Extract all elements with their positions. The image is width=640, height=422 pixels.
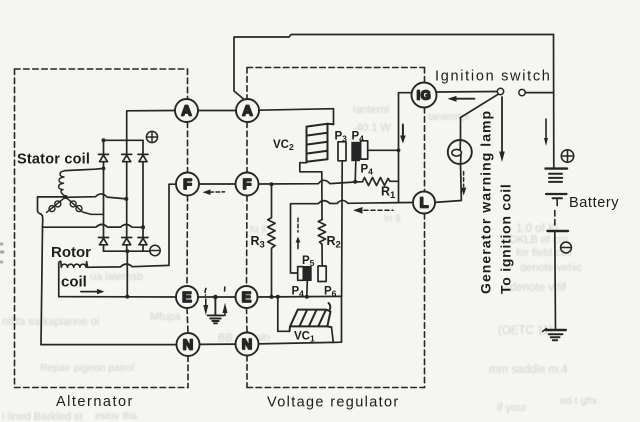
terminal N alternator (177, 333, 200, 356)
wire: F1 to F2 (199, 183, 236, 185)
flow arrow down on IG drop (402, 125, 404, 137)
node: P5 drop junction (305, 295, 309, 299)
wire: ignition switch to battery line (525, 92, 553, 94)
wire: diode column 1 (103, 140, 105, 251)
wire: E row left, rotor coil outline, F field loop (59, 184, 176, 297)
svg-text:if your: if your (497, 402, 527, 414)
diode D4 negative (99, 238, 109, 245)
terminal A regulator (236, 99, 259, 122)
diode D6 negative (138, 238, 148, 245)
svg-text:tanterrtpl: tanterrtpl (428, 111, 469, 123)
wire: N2 right to VC1 corner (259, 296, 342, 344)
resistor R1 (363, 178, 399, 186)
node: R3 top junction (270, 182, 274, 186)
svg-text:Rotor: Rotor (51, 244, 91, 261)
wire: E1 to E2 (199, 296, 236, 298)
wire: phase 3 lower with hops to column 3 (43, 224, 144, 227)
battery cell plates (546, 169, 569, 231)
svg-text:IG: IG (417, 88, 432, 103)
wire: P4 moving contact drop to R1 row (354, 161, 357, 182)
diode D5 negative (122, 238, 132, 245)
wire: IG left and vertical drop to L row (399, 93, 412, 203)
rectifier negative symbol (150, 245, 160, 255)
node: VC1 left junction (276, 295, 280, 299)
svg-text:in il: in il (384, 213, 401, 225)
wire: negative rail down to E row (126, 251, 128, 296)
node: R3 bottom junction (270, 295, 274, 299)
diode D1 positive (99, 154, 109, 161)
svg-text:E: E (242, 290, 252, 306)
battery negative symbol (561, 242, 572, 253)
ground symbol between E terminals (208, 297, 224, 323)
svg-text:-denote vrlif: -denote vrlif (506, 282, 567, 294)
wire: E row right segment (258, 295, 342, 298)
wire: IG terminal to ignition switch (437, 91, 498, 94)
svg-text:Generator warning lamp: Generator warning lamp (478, 110, 494, 294)
node: negative rail junction (125, 249, 129, 253)
wire: N1 to N2 (200, 343, 236, 345)
terminal E regulator (236, 286, 258, 308)
svg-text:Repair pigeon patrol: Repair pigeon patrol (40, 362, 135, 374)
svg-text:E: E (182, 290, 192, 306)
flow arrow down at E ground left (204, 289, 207, 296)
wire: phase 2 with hop over column 1 (66, 194, 126, 199)
wire: lamp stem (460, 118, 462, 140)
flow arrow down from lamp (463, 172, 465, 187)
wire: VC1 right terminal drop (332, 327, 334, 342)
svg-text:mm saddle m.4: mm saddle m.4 (489, 364, 568, 376)
wire: R2 bottom to P6 contact (321, 244, 323, 266)
contact P4 moving plate filled (351, 142, 360, 161)
svg-text:Battery: Battery (569, 195, 619, 211)
svg-text:F: F (243, 177, 252, 193)
node: junction on IG drop at contact wire (397, 148, 401, 152)
flow arrow left between F terminals (210, 191, 225, 193)
svg-text:ed t gftx: ed t gftx (560, 395, 598, 407)
wire: battery feed down to battery positive plate (553, 35, 555, 169)
svg-text:40.1 W: 40.1 W (356, 122, 391, 134)
rotor coil current arrow (81, 291, 98, 293)
battery ground symbol (543, 329, 566, 341)
battery positive symbol (561, 150, 573, 162)
resistor R2 (318, 220, 325, 245)
svg-text:To ignition coil: To ignition coil (498, 184, 514, 295)
wire: VC2 bottom jog down to R2 (300, 162, 322, 220)
svg-text:N: N (183, 338, 193, 354)
node: star center (63, 195, 67, 199)
flow arrow left on L row dashes (364, 209, 393, 211)
svg-text:denote vehic: denote vehic (520, 262, 583, 274)
terminal N regulator (236, 333, 259, 356)
wire: stator phase 1 top to diode column 1 (65, 168, 104, 170)
svg-text:coil: coil (61, 274, 87, 291)
svg-text:ntllfa sa kaplanne ol: ntllfa sa kaplanne ol (2, 316, 99, 328)
svg-text:Stator coil: Stator coil (17, 152, 90, 168)
wire: F row with hop over VC2-R2 line, to P4 junction (259, 180, 363, 184)
wire: left vertical down to N row (41, 227, 43, 344)
svg-text:lanterni: lanterni (353, 104, 389, 116)
diode D2 positive (122, 154, 132, 161)
wire: VC1 left leg from E row (278, 297, 290, 332)
svg-text:Mfupa: Mfupa (150, 311, 181, 323)
contact P5 moving plate filled (303, 266, 311, 281)
voltage coil VC1 (290, 303, 332, 331)
positive diode rail (104, 139, 144, 141)
voltage regulator dashed box (247, 68, 425, 388)
svg-text:DKLB of crn: DKLB of crn (509, 234, 568, 246)
svg-text:Ignition switch: Ignition switch (435, 69, 552, 85)
stator winding right branch (67, 198, 104, 215)
contact P5 left plate open (298, 267, 304, 281)
diode D3 positive (138, 154, 148, 161)
wire: star center to N drop (37, 197, 65, 227)
rectifier positive symbol (146, 131, 157, 142)
contact P6 plate open (318, 266, 326, 282)
wire: A1 left into rectifier positive rail (127, 111, 175, 141)
resistor R3 (268, 184, 275, 297)
flow arrow up beside R3 (297, 218, 299, 232)
svg-text:A: A (242, 104, 253, 120)
node: P4 drop junction (353, 180, 357, 184)
wire: P5 contact drop to E row (306, 281, 309, 297)
wire: contact right plate to IG drop (368, 149, 399, 151)
terminal IG (412, 83, 437, 108)
warning lamp (448, 140, 472, 164)
wire: L row to P5 contact (291, 200, 414, 273)
svg-text:(OETC 11): (OETC 11) (498, 325, 553, 337)
flow arrow down to ignition coil (501, 97, 503, 153)
node: phase 3 junction on column 3 (141, 225, 145, 229)
svg-text:eslov tba: eslov tba (95, 410, 137, 422)
ignition switch contact circle left (497, 88, 503, 94)
svg-text:L: L (420, 196, 429, 212)
flow arrow left under IG switch wire (456, 98, 475, 100)
terminal E alternator (176, 286, 198, 308)
ignition switch contact circle right (519, 89, 525, 95)
svg-text:i lined Barkled st: i lined Barkled st (2, 411, 83, 422)
wire: A1 to A2 (198, 110, 236, 112)
terminal F regulator (236, 173, 259, 196)
stator winding left branch (47, 198, 65, 213)
node: phase 1 junction (102, 167, 106, 171)
wire: diode column 3 (142, 140, 144, 251)
node: phase 2 junction on column 2 (124, 197, 128, 201)
svg-text:A: A (181, 104, 192, 120)
terminal F alternator (176, 173, 199, 196)
svg-text:Voltage regulator: Voltage regulator (267, 395, 400, 411)
wire: battery negative to ground (554, 231, 557, 329)
ignition switch blade to lamp stem (461, 94, 499, 117)
contact right plate open (361, 141, 368, 159)
wire: A2 right to VC2 top (259, 109, 334, 125)
wire: lamp bottom to L terminal (435, 164, 461, 202)
flow arrow up at E ground right (224, 287, 226, 293)
stator coil vertical winding (59, 171, 66, 197)
flow arrow down at battery feed (545, 119, 547, 139)
wire: top rail from regulator A to battery (234, 35, 554, 99)
wire: P3 bottom down to E row corner (341, 161, 344, 296)
wire: N row left (41, 344, 177, 346)
node: positive rail junction (102, 138, 106, 142)
voltage coil VC2 (307, 124, 334, 162)
wire: diode column 2 (126, 140, 128, 251)
terminal A alternator (175, 99, 198, 122)
terminal L (413, 192, 435, 214)
node: E row junction with negative rail (125, 295, 129, 299)
svg-text:Alternator: Alternator (56, 394, 134, 410)
svg-text:ua laiemsb: ua laiemsb (90, 271, 143, 283)
alternator dashed box (15, 69, 189, 388)
contact P3 fixed plate (338, 142, 346, 161)
svg-text:F: F (183, 177, 192, 193)
svg-text:N: N (242, 337, 252, 353)
negative diode rail (104, 250, 150, 252)
